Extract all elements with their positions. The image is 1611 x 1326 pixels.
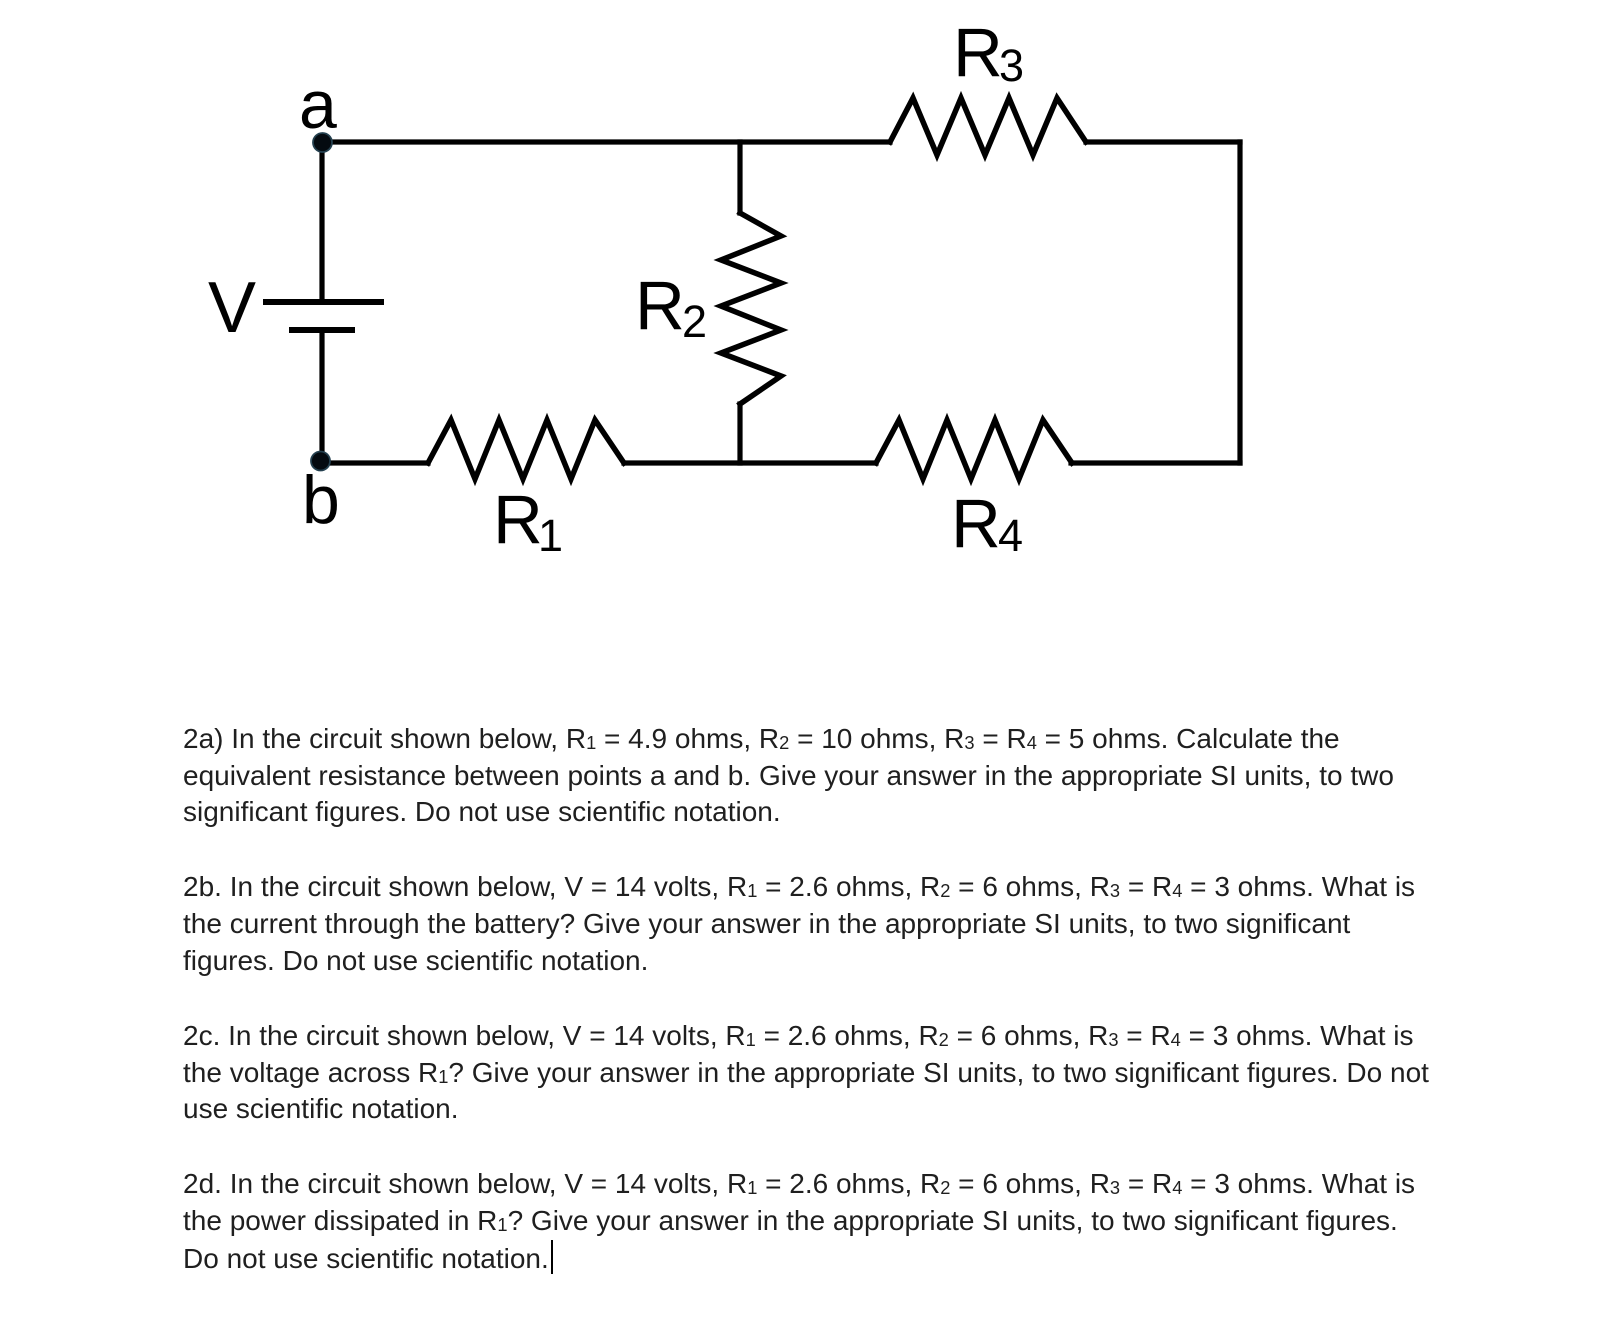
svg-text:V: V bbox=[208, 268, 256, 348]
resistor R3 zigzag bbox=[890, 98, 1086, 155]
svg-text:1: 1 bbox=[538, 510, 563, 561]
battery V short plate bbox=[292, 327, 352, 333]
svg-text:R: R bbox=[493, 481, 543, 558]
wire bottom from node b to R1 bbox=[322, 460, 428, 465]
wire top from R3 to top-right corner bbox=[1086, 139, 1240, 144]
resistor R2 zigzag bbox=[721, 213, 781, 404]
wire R2 top stub bbox=[737, 142, 742, 213]
wire bottom from R4 to bottom-right corner bbox=[1071, 460, 1240, 465]
svg-text:4: 4 bbox=[998, 510, 1023, 561]
resistor R4 zigzag bbox=[876, 420, 1072, 479]
resistor R1 zigzag bbox=[428, 420, 624, 479]
node b junction dot bbox=[311, 452, 330, 471]
wire left rail upper (node a to battery) bbox=[319, 142, 324, 302]
svg-text:R: R bbox=[635, 267, 685, 344]
svg-text:R: R bbox=[951, 485, 1001, 562]
svg-text:2: 2 bbox=[682, 296, 707, 347]
battery V long plate bbox=[266, 299, 381, 305]
svg-text:b: b bbox=[302, 462, 340, 538]
wire top from node a to R3 bbox=[322, 139, 890, 144]
wire R2 bottom stub bbox=[737, 404, 742, 463]
wire left rail lower (battery to node b) bbox=[319, 330, 324, 463]
svg-text:R: R bbox=[953, 14, 1003, 91]
wire bottom from R1 to R4 bbox=[624, 460, 876, 465]
wire right rail bbox=[1237, 142, 1242, 463]
svg-text:3: 3 bbox=[999, 40, 1024, 91]
svg-text:a: a bbox=[299, 67, 337, 143]
node a junction dot bbox=[313, 133, 332, 152]
